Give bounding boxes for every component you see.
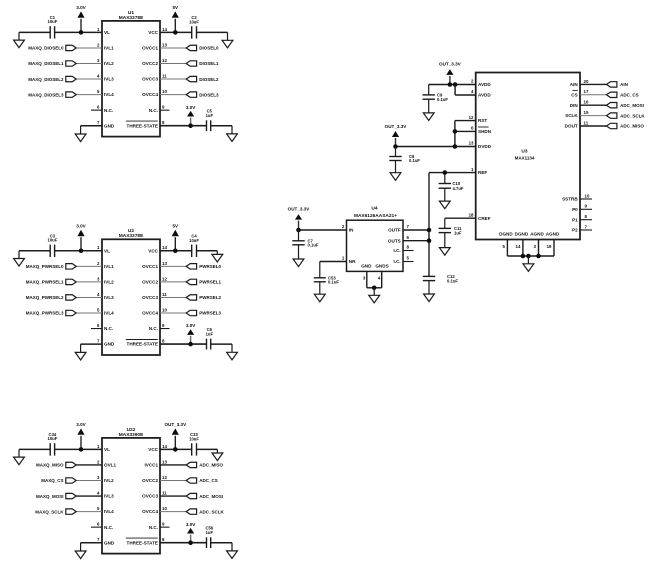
- svg-text:MAXQ_DIOSEL2: MAXQ_DIOSEL2: [28, 77, 64, 82]
- net flag MAXQ_DIOSEL1: [28, 61, 76, 66]
- net flag ADC_CS: [186, 478, 218, 483]
- net flag DIOSEL1: [186, 61, 219, 66]
- power OUT_3.3V: [439, 62, 462, 85]
- ground: [423, 99, 434, 120]
- U1 pin 13 wire: [160, 42, 186, 48]
- junction: [372, 286, 377, 291]
- svg-text:12: 12: [162, 475, 167, 480]
- svg-text:3.0V: 3.0V: [186, 323, 196, 328]
- U4 pin 4 GNDS wire: [378, 271, 382, 287]
- power OUT_3.3V: [164, 422, 187, 450]
- power OUT_3.3V: [288, 207, 311, 230]
- svg-text:ADC_CS: ADC_CS: [199, 478, 218, 483]
- svg-text:I.C.: I.C.: [394, 248, 401, 253]
- net flag ADC_SCLK: [186, 509, 224, 514]
- capacitor C1: [48, 15, 58, 39]
- junction: [79, 30, 84, 35]
- svg-text:6: 6: [97, 323, 100, 328]
- svg-text:13: 13: [162, 261, 167, 266]
- svg-text:MAX1134: MAX1134: [515, 156, 535, 161]
- U3 pin 15 wire: [580, 110, 607, 116]
- svg-text:1: 1: [97, 444, 100, 449]
- svg-text:CREF: CREF: [478, 216, 491, 221]
- svg-text:2: 2: [97, 459, 100, 464]
- IC U1 MAX3378E: [102, 10, 160, 137]
- svg-text:8: 8: [407, 245, 410, 250]
- U3 pin 17 wire: [580, 89, 607, 95]
- svg-text:PWRSEL2: PWRSEL2: [199, 295, 221, 300]
- U1 pin 7 GND wire: [81, 120, 102, 126]
- U2 pin 9 N.C. stub: [160, 323, 170, 329]
- svg-text:IVL2: IVL2: [104, 280, 114, 285]
- svg-text:IVCC1: IVCC1: [144, 463, 158, 468]
- svg-text:RST: RST: [478, 118, 487, 123]
- svg-text:ADC_MISO: ADC_MISO: [199, 463, 223, 468]
- junction: [188, 123, 193, 128]
- svg-text:6: 6: [97, 105, 100, 110]
- net flag ADC_MOSI: [186, 493, 223, 498]
- ground: [439, 188, 450, 209]
- wire: [19, 250, 50, 252]
- U22 pin 10 wire: [160, 506, 186, 512]
- wire: [197, 448, 218, 450]
- svg-text:DOUT: DOUT: [565, 124, 578, 129]
- svg-text:ADC_CS: ADC_CS: [620, 93, 639, 98]
- svg-text:NR: NR: [349, 259, 356, 264]
- U1 pin 14 wire: [160, 27, 192, 33]
- svg-text:OVCC1: OVCC1: [142, 46, 158, 51]
- svg-text:3: 3: [97, 475, 100, 480]
- net flag ADC_MISO: [607, 123, 645, 128]
- svg-text:OUT_3.3V: OUT_3.3V: [288, 207, 311, 212]
- svg-text:MAXQ_PWRSEL3: MAXQ_PWRSEL3: [26, 311, 64, 316]
- power 3.0V: [186, 105, 196, 126]
- ground: [14, 251, 25, 266]
- svg-text:MAX6126AASA21+: MAX6126AASA21+: [354, 213, 397, 219]
- power 3.0V: [76, 422, 86, 450]
- svg-text:5: 5: [97, 307, 100, 312]
- net flag PWRSEL3: [186, 310, 221, 315]
- IC U2 MAX3378E: [102, 228, 160, 355]
- svg-text:10uF: 10uF: [48, 19, 58, 24]
- svg-text:14: 14: [162, 27, 167, 32]
- wire: [454, 121, 456, 147]
- U4 pin 1 NR wire: [320, 256, 347, 262]
- junction: [526, 254, 531, 259]
- svg-text:OVCC3: OVCC3: [142, 494, 158, 499]
- svg-text:GND: GND: [104, 540, 115, 545]
- capacitor C12: [423, 274, 459, 283]
- svg-text:12: 12: [469, 115, 474, 120]
- wire: [211, 542, 232, 544]
- power 5V: [172, 223, 179, 251]
- svg-text:MAX3390E: MAX3390E: [119, 432, 144, 438]
- ground: [369, 288, 380, 303]
- net flag AIN: [607, 82, 628, 87]
- svg-text:MAXQ_PWRSEL1: MAXQ_PWRSEL1: [26, 280, 64, 285]
- svg-text:VL: VL: [104, 30, 110, 35]
- net flag PWRSEL2: [186, 295, 221, 300]
- svg-text:7: 7: [97, 120, 100, 125]
- wire: [19, 448, 50, 450]
- svg-text:REF: REF: [478, 170, 487, 175]
- svg-text:MAXQ_MOSI: MAXQ_MOSI: [36, 494, 64, 499]
- ground: [212, 251, 223, 262]
- svg-text:9: 9: [162, 105, 165, 110]
- power 3.0V: [186, 323, 196, 344]
- U22 pin 11 wire: [160, 490, 186, 496]
- svg-text:DGND: DGND: [515, 231, 529, 236]
- svg-text:12: 12: [162, 58, 167, 63]
- svg-text:OVCC2: OVCC2: [142, 61, 158, 66]
- net flag PWRSEL0: [186, 264, 221, 269]
- svg-text:18: 18: [469, 212, 474, 217]
- U4 pin 3 GND wire: [363, 271, 367, 287]
- svg-text:N.C.: N.C.: [104, 326, 113, 331]
- svg-text:GND: GND: [361, 264, 372, 269]
- junction: [173, 249, 178, 254]
- svg-text:IVL3: IVL3: [104, 77, 114, 82]
- svg-text:N.C.: N.C.: [149, 108, 158, 113]
- svg-text:1: 1: [342, 256, 345, 261]
- power 3.0V: [186, 522, 196, 543]
- svg-text:3: 3: [97, 58, 100, 63]
- IC U3 MAX1134: [476, 73, 580, 240]
- svg-text:THREE-STATE: THREE-STATE: [127, 540, 158, 545]
- net flag MAXQ_PWRSEL1: [26, 279, 76, 284]
- net flag ADC_SCLK: [607, 113, 646, 118]
- net flag DIOSEL0: [186, 45, 219, 50]
- svg-text:IVL1: IVL1: [104, 46, 114, 51]
- svg-text:10: 10: [162, 89, 167, 94]
- svg-text:0.1uF: 0.1uF: [437, 97, 448, 102]
- svg-text:14: 14: [162, 245, 167, 250]
- junction: [427, 238, 432, 243]
- svg-text:SHDN: SHDN: [478, 129, 492, 134]
- U3 pin 7 stub: [580, 224, 592, 230]
- ground: [293, 245, 304, 267]
- U2 pin 12 wire: [160, 276, 186, 282]
- svg-text:20: 20: [584, 79, 589, 84]
- U3 pin 12 RST wire: [455, 115, 476, 121]
- svg-text:19: 19: [547, 244, 552, 249]
- svg-text:PWRSEL1: PWRSEL1: [199, 280, 221, 285]
- svg-text:10uF: 10uF: [48, 238, 58, 243]
- svg-text:VL: VL: [104, 248, 110, 253]
- svg-text:THREE-STATE: THREE-STATE: [127, 342, 158, 347]
- svg-text:8: 8: [162, 339, 165, 344]
- svg-text:OVCC4: OVCC4: [142, 92, 158, 97]
- svg-text:GND: GND: [104, 123, 115, 128]
- junction: [453, 82, 458, 87]
- svg-text:OVCC4: OVCC4: [142, 509, 158, 514]
- ground: [212, 449, 223, 460]
- svg-text:12: 12: [162, 276, 167, 281]
- svg-text:4: 4: [97, 73, 100, 78]
- U4 pin 6 OUTS wire: [403, 235, 429, 241]
- U4 pin 5 I.C. stub: [403, 256, 414, 262]
- svg-text:9: 9: [162, 323, 165, 328]
- svg-text:IVL4: IVL4: [104, 509, 114, 514]
- net flag MAXQ_CS: [41, 478, 76, 483]
- svg-text:GNDS: GNDS: [375, 264, 388, 269]
- U3 pin 8 stub: [580, 214, 592, 220]
- svg-text:14: 14: [516, 244, 521, 249]
- ground: [14, 449, 25, 464]
- svg-text:DVDD: DVDD: [478, 144, 492, 149]
- svg-text:PWRSEL3: PWRSEL3: [199, 311, 221, 316]
- U3 pin 18 CREF wire: [445, 212, 476, 218]
- capacitor C7: [292, 230, 319, 248]
- svg-text:SSTRB: SSTRB: [562, 197, 578, 202]
- U2 pin 4 wire: [76, 292, 102, 298]
- net flag MAXQ_DIOSEL0: [28, 45, 76, 50]
- U22 pin 8 THREE-STATE wire: [160, 537, 207, 543]
- svg-text:ADC_MOSI: ADC_MOSI: [620, 103, 644, 108]
- svg-text:P2: P2: [572, 228, 578, 233]
- U3 pin 13 DVDD wire: [396, 141, 476, 147]
- svg-text:1: 1: [97, 245, 100, 250]
- U4 pin 7 OUTF wire: [403, 224, 429, 230]
- svg-text:IVL2: IVL2: [104, 61, 114, 66]
- svg-text:ADC_MOSI: ADC_MOSI: [199, 494, 223, 499]
- U3 pin 16 wire: [580, 100, 607, 106]
- svg-text:10uF: 10uF: [48, 436, 58, 441]
- U22 pin 9 N.C. stub: [160, 522, 170, 528]
- junction: [448, 82, 453, 87]
- svg-text:1uF: 1uF: [454, 230, 462, 235]
- net flag ADC_MOSI: [607, 103, 644, 108]
- capacitor C5: [206, 109, 214, 131]
- ground: [390, 161, 401, 181]
- U2 pin 1 wire: [55, 245, 102, 251]
- svg-text:3.0V: 3.0V: [186, 105, 196, 110]
- net flag PWRSEL1: [186, 279, 221, 284]
- svg-text:N.C.: N.C.: [104, 108, 113, 113]
- svg-text:4.7uF: 4.7uF: [453, 186, 464, 191]
- svg-text:OVCC2: OVCC2: [142, 280, 158, 285]
- svg-text:MAXQ_PWRSEL0: MAXQ_PWRSEL0: [26, 264, 64, 269]
- junction: [188, 342, 193, 347]
- U3 pin 10 stub: [580, 193, 592, 199]
- ground: [75, 126, 86, 142]
- U1 pin 2 wire: [76, 42, 102, 48]
- junction: [393, 144, 398, 149]
- net flag MAXQ_PWRSEL3: [26, 310, 76, 315]
- svg-text:9: 9: [585, 204, 588, 209]
- junction: [443, 170, 448, 175]
- svg-text:5V: 5V: [172, 5, 179, 10]
- power 3.0V: [76, 5, 86, 33]
- svg-text:AIN: AIN: [570, 82, 579, 87]
- U22 pin 6 N.C. stub: [91, 522, 102, 528]
- wire: [211, 125, 232, 127]
- junction: [453, 129, 458, 134]
- svg-text:2: 2: [342, 224, 345, 229]
- ground: [14, 32, 25, 47]
- svg-text:7: 7: [585, 224, 588, 229]
- svg-text:7: 7: [97, 537, 100, 542]
- svg-text:13: 13: [469, 141, 474, 146]
- svg-text:PWRSEL0: PWRSEL0: [199, 264, 221, 269]
- svg-text:13: 13: [162, 42, 167, 47]
- svg-text:N.C.: N.C.: [104, 525, 113, 530]
- capacitor C4: [189, 234, 199, 257]
- junction: [427, 228, 432, 233]
- svg-text:MAXQ_CS: MAXQ_CS: [41, 478, 63, 483]
- svg-text:OUT_3.3V: OUT_3.3V: [385, 124, 408, 129]
- svg-text:10uF: 10uF: [189, 19, 199, 24]
- junction: [79, 447, 84, 452]
- U3 pin 9 stub: [580, 204, 592, 210]
- svg-text:11: 11: [162, 292, 167, 297]
- capacitor C8: [389, 147, 420, 164]
- U3 pin 2 AVDD wire: [429, 79, 476, 85]
- ground: [227, 126, 238, 142]
- U2 pin 6 N.C. stub: [91, 323, 102, 329]
- svg-text:IVL3: IVL3: [104, 494, 114, 499]
- junction: [296, 228, 301, 233]
- power OUT_3.3V: [385, 124, 408, 147]
- svg-text:ADC_SCLK: ADC_SCLK: [199, 509, 224, 514]
- U4 pin 8 I.C. stub: [403, 245, 414, 251]
- junction: [173, 447, 178, 452]
- svg-text:3: 3: [97, 276, 100, 281]
- junction: [453, 144, 458, 149]
- wire: [197, 250, 218, 252]
- net flag MAXQ_MOSI: [36, 493, 76, 498]
- svg-text:11: 11: [162, 490, 167, 495]
- U3 pin 20 wire: [580, 79, 607, 85]
- U1 pin 9 N.C. stub: [160, 105, 170, 111]
- svg-text:2: 2: [97, 261, 100, 266]
- svg-text:P1: P1: [572, 217, 578, 222]
- svg-text:3.0V: 3.0V: [76, 5, 86, 10]
- svg-text:MAX3378E: MAX3378E: [119, 15, 144, 21]
- svg-text:AGND: AGND: [546, 231, 560, 236]
- svg-text:AVDD: AVDD: [478, 82, 491, 87]
- U3 pin 4 AVDD wire: [455, 85, 476, 96]
- svg-text:VCC: VCC: [148, 248, 158, 253]
- svg-text:1uF: 1uF: [206, 331, 214, 336]
- svg-text:5: 5: [407, 256, 410, 261]
- svg-text:MAX3378E: MAX3378E: [119, 233, 144, 239]
- svg-text:10uF: 10uF: [189, 436, 199, 441]
- svg-text:DIOSEL3: DIOSEL3: [199, 92, 219, 97]
- ground: [227, 543, 238, 559]
- capacitor C10: [439, 173, 464, 191]
- svg-text:5: 5: [97, 506, 100, 511]
- svg-text:10uF: 10uF: [189, 238, 199, 243]
- svg-text:MAXQ_DIOSEL0: MAXQ_DIOSEL0: [28, 46, 64, 51]
- power 3.0V: [76, 223, 86, 251]
- svg-text:6: 6: [471, 126, 474, 131]
- net flag ADC_CS: [607, 92, 639, 97]
- U22 pin 14 wire: [160, 444, 192, 450]
- svg-text:OUT_3.3V: OUT_3.3V: [164, 422, 187, 427]
- svg-text:5: 5: [97, 89, 100, 94]
- svg-text:OUT_3.3V: OUT_3.3V: [439, 62, 462, 67]
- svg-text:MAXQ_DIOSEL1: MAXQ_DIOSEL1: [28, 61, 64, 66]
- ground: [424, 281, 435, 302]
- ground: [523, 256, 534, 271]
- svg-text:OVCC4: OVCC4: [142, 311, 158, 316]
- junction: [79, 249, 84, 254]
- U1 pin 6 N.C. stub: [91, 105, 102, 111]
- svg-text:AVDD: AVDD: [478, 93, 491, 98]
- svg-text:U3: U3: [521, 149, 527, 155]
- svg-text:17: 17: [584, 89, 589, 94]
- svg-text:OVCC3: OVCC3: [142, 295, 158, 300]
- svg-text:14: 14: [162, 444, 167, 449]
- svg-text:OUTS: OUTS: [388, 238, 401, 243]
- svg-text:MAXQ_DIOSEL3: MAXQ_DIOSEL3: [28, 92, 64, 97]
- U2 pin 14 wire: [160, 245, 192, 251]
- U3 pin 6 SHDN wire: [455, 126, 476, 132]
- U22 pin 12 wire: [160, 475, 186, 481]
- svg-text:0.1uF: 0.1uF: [447, 278, 458, 283]
- U1 pin 3 wire: [76, 58, 102, 64]
- U2 pin 5 wire: [76, 307, 102, 313]
- svg-text:3.0V: 3.0V: [76, 223, 86, 228]
- ground: [314, 282, 325, 302]
- svg-text:5: 5: [502, 244, 505, 249]
- net flag MAXQ_MISO: [36, 462, 76, 467]
- svg-text:VCC: VCC: [148, 30, 158, 35]
- svg-text:8: 8: [162, 537, 165, 542]
- U2 pin 7 GND wire: [81, 339, 102, 345]
- capacitor C56: [205, 526, 213, 548]
- svg-text:DGND: DGND: [499, 231, 513, 236]
- svg-text:VL: VL: [104, 447, 110, 452]
- ground: [75, 543, 86, 559]
- svg-text:N.C.: N.C.: [149, 326, 158, 331]
- svg-text:THREE-STATE: THREE-STATE: [127, 123, 158, 128]
- svg-text:4: 4: [471, 89, 474, 94]
- svg-text:IVL1: IVL1: [104, 264, 114, 269]
- U2 pin 13 wire: [160, 261, 186, 267]
- svg-text:11: 11: [584, 120, 589, 125]
- svg-text:OVCC3: OVCC3: [142, 77, 158, 82]
- svg-text:AGND: AGND: [530, 231, 544, 236]
- svg-text:3: 3: [363, 275, 366, 280]
- net flag MAXQ_PWRSEL2: [26, 295, 76, 300]
- node REF bus wire: [428, 173, 430, 277]
- svg-text:6: 6: [407, 235, 410, 240]
- capacitor C34: [48, 432, 58, 456]
- svg-text:IN: IN: [349, 228, 354, 233]
- capacitor C2: [189, 15, 199, 38]
- svg-text:ADC_SCLK: ADC_SCLK: [620, 113, 645, 118]
- svg-text:DIOSEL0: DIOSEL0: [199, 46, 219, 51]
- svg-text:IVL4: IVL4: [104, 311, 114, 316]
- svg-text:8: 8: [162, 120, 165, 125]
- U22 pin 4 wire: [76, 490, 102, 496]
- svg-text:VCC: VCC: [148, 447, 158, 452]
- U2 pin 2 wire: [76, 261, 102, 267]
- svg-text:DIOSEL2: DIOSEL2: [199, 77, 219, 82]
- U3 pin 11 wire: [580, 120, 607, 126]
- U1 pin 1 wire: [55, 27, 102, 33]
- svg-text:ADC_MISO: ADC_MISO: [620, 124, 644, 129]
- svg-text:GND: GND: [104, 342, 115, 347]
- svg-text:P0: P0: [572, 207, 578, 212]
- svg-text:CS: CS: [571, 92, 577, 97]
- IC U4 MAX6126AASA21+: [347, 206, 404, 272]
- svg-text:OVL1: OVL1: [104, 463, 116, 468]
- svg-text:7: 7: [407, 224, 410, 229]
- svg-text:11: 11: [162, 73, 167, 78]
